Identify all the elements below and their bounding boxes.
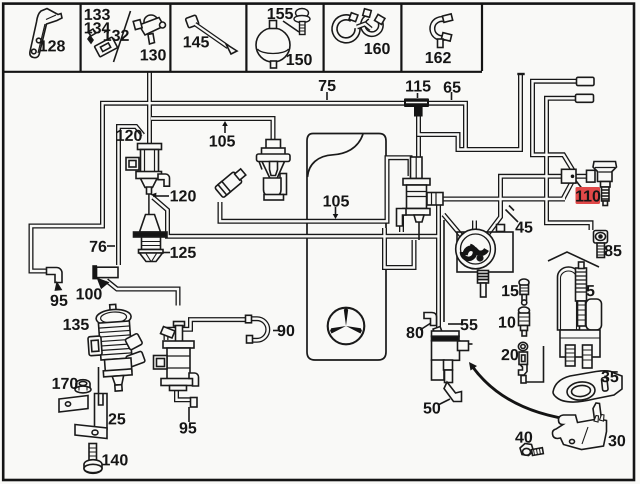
svg-text:130: 130 xyxy=(140,47,167,64)
svg-text:162: 162 xyxy=(425,50,452,67)
svg-text:170: 170 xyxy=(52,376,79,393)
svg-text:110: 110 xyxy=(575,188,601,205)
svg-text:155: 155 xyxy=(267,6,294,23)
svg-text:76: 76 xyxy=(89,239,107,256)
svg-text:65: 65 xyxy=(443,80,461,97)
svg-text:132: 132 xyxy=(103,28,130,45)
svg-text:160: 160 xyxy=(364,41,391,58)
svg-text:128: 128 xyxy=(39,38,66,55)
svg-text:5: 5 xyxy=(586,283,595,300)
svg-text:95: 95 xyxy=(50,293,68,310)
svg-text:115: 115 xyxy=(405,79,431,96)
svg-text:95: 95 xyxy=(179,420,197,437)
svg-text:100: 100 xyxy=(76,286,103,303)
svg-text:120: 120 xyxy=(116,128,143,145)
svg-text:150: 150 xyxy=(286,52,313,69)
svg-text:35: 35 xyxy=(601,369,619,386)
svg-text:40: 40 xyxy=(515,430,533,447)
svg-text:105: 105 xyxy=(209,133,236,150)
svg-text:55: 55 xyxy=(460,317,478,334)
svg-text:85: 85 xyxy=(604,243,622,260)
svg-text:20: 20 xyxy=(501,347,519,364)
svg-text:25: 25 xyxy=(108,411,126,428)
svg-text:30: 30 xyxy=(608,433,626,450)
svg-text:120: 120 xyxy=(170,188,197,205)
svg-text:140: 140 xyxy=(102,452,129,469)
svg-text:105: 105 xyxy=(323,194,350,211)
svg-text:75: 75 xyxy=(318,78,336,95)
svg-text:135: 135 xyxy=(63,317,90,334)
svg-text:125: 125 xyxy=(170,245,197,262)
svg-text:50: 50 xyxy=(423,401,441,418)
svg-text:15: 15 xyxy=(501,283,519,300)
svg-text:80: 80 xyxy=(406,325,424,342)
svg-text:90: 90 xyxy=(277,323,295,340)
svg-text:10: 10 xyxy=(498,315,516,332)
svg-text:45: 45 xyxy=(515,220,533,237)
svg-text:145: 145 xyxy=(183,34,210,51)
